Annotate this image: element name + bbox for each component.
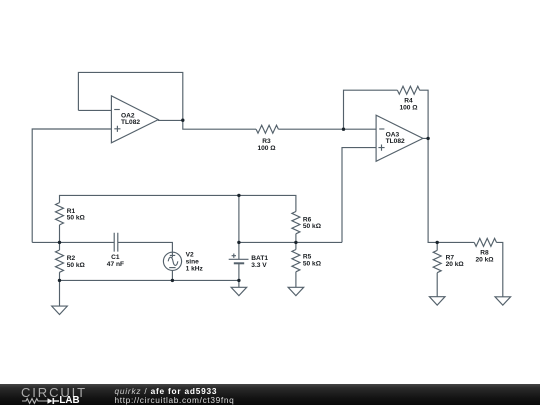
CircuitLab logo: resistor + diode glyph	[22, 396, 60, 405]
svg-text:50 kΩ: 50 kΩ	[67, 215, 86, 222]
node: BAT1 / OA3 bias junction	[237, 241, 240, 244]
footer bar	[0, 384, 540, 405]
ground (R2)	[59, 280, 61, 306]
op-amp OA2 minus mark	[114, 109, 120, 111]
resistor R4 zigzag	[397, 86, 419, 94]
svg-text:20 kΩ: 20 kΩ	[475, 256, 494, 263]
node: R6/R5 junction	[294, 241, 297, 244]
battery BAT1 plus mark	[232, 254, 236, 258]
node: R7 junction	[436, 241, 439, 244]
wire: R1 bottom to bias node	[59, 225, 61, 243]
resistor R2 zigzag	[56, 242, 64, 280]
wire: OA3 bias rail (middle right)	[239, 241, 342, 243]
svg-text:BAT1: BAT1	[251, 255, 268, 262]
voltage source V2 minus mark	[169, 267, 175, 269]
wire: OA2 feedback top	[78, 72, 182, 120]
ground (R8)	[495, 297, 511, 305]
battery BAT1 leads	[238, 195, 240, 280]
node: BAT1 bottom junction	[237, 279, 240, 282]
op-amp OA2 plus mark	[114, 126, 120, 132]
wire: R3 to OA3 inverting input	[278, 128, 376, 130]
op-amp OA3 triangle	[376, 115, 423, 161]
voltage source V2 circle	[163, 252, 181, 270]
svg-text:20 kΩ: 20 kΩ	[446, 261, 465, 268]
wire: R4 to OA3 output	[420, 90, 429, 138]
svg-text:TL082: TL082	[386, 138, 405, 145]
wire: OA2 output to R3	[158, 120, 256, 129]
node: OA3 output junction	[426, 137, 429, 140]
svg-text:50 kΩ: 50 kΩ	[303, 223, 322, 230]
footer title	[115, 386, 218, 396]
resistor R3 zigzag	[256, 125, 278, 133]
ground (BAT1)	[238, 280, 240, 287]
node: top rail / BAT1 junction	[237, 194, 240, 197]
ground (R5)	[288, 287, 304, 295]
op-amp OA2 triangle	[111, 96, 158, 143]
svg-text:100 Ω: 100 Ω	[399, 104, 418, 111]
wire: OA3 non-inverting input	[342, 148, 376, 243]
svg-text:50 kΩ: 50 kΩ	[67, 262, 86, 269]
footer url	[115, 395, 235, 405]
voltage source V2 plus mark (lead stub + crossbar)	[170, 252, 175, 257]
svg-text:1 kHz: 1 kHz	[186, 265, 204, 272]
voltage source V2 sine	[168, 257, 178, 265]
node: V2 bottom junction	[171, 279, 174, 282]
node: OA3 inverting junction	[342, 128, 345, 131]
wire: OA2 non-inverting input from left rail	[32, 129, 112, 242]
svg-text:50 kΩ: 50 kΩ	[303, 261, 322, 268]
resistor R1 zigzag	[56, 203, 64, 225]
op-amp OA3 minus mark	[379, 128, 384, 130]
battery BAT1 plates	[229, 258, 249, 260]
wire: OA2 inverting input stub	[78, 109, 112, 111]
wire: C1 right plate to V2 top	[118, 242, 173, 252]
node: ground rail left	[58, 279, 61, 282]
wire: OA3 feedback up from minus node	[344, 90, 398, 129]
svg-text:3.3 V: 3.3 V	[251, 262, 267, 269]
node: OA2 output junction	[181, 119, 184, 122]
resistor R5 zigzag	[292, 242, 300, 287]
svg-text:V2: V2	[186, 251, 194, 258]
resistor R8 zigzag	[474, 238, 496, 246]
wire: R8 to its ground	[496, 242, 502, 296]
resistor R6 zigzag	[292, 212, 300, 243]
svg-text:TL082: TL082	[121, 119, 140, 126]
wire: bias node to C1 left plate	[32, 241, 114, 243]
op-amp OA3 plus mark	[378, 145, 384, 151]
CircuitLab logo: CIRCUIT	[21, 385, 87, 400]
wire: V2 bottom to ground rail	[171, 270, 173, 280]
svg-text:47 nF: 47 nF	[107, 261, 124, 268]
wire: bottom ground rail	[60, 279, 239, 281]
wire: top supply rail	[60, 195, 296, 211]
capacitor C1 plates	[114, 233, 118, 252]
CircuitLab logo: LAB	[59, 395, 79, 405]
wire: OA3 output down to R7/R8 node	[423, 138, 474, 242]
resistor R7 zigzag	[433, 242, 441, 296]
node: bias node R1/R2	[58, 241, 61, 244]
ground (R7)	[429, 297, 445, 305]
svg-text:100 Ω: 100 Ω	[257, 145, 276, 152]
